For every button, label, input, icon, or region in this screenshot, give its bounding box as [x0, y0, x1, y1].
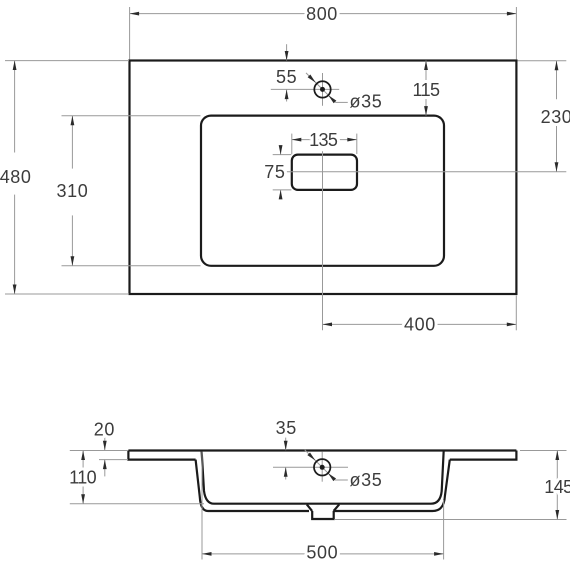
svg-text:115: 115: [413, 80, 440, 100]
svg-text:20: 20: [94, 420, 115, 440]
svg-text:ø35: ø35: [349, 92, 382, 112]
svg-text:500: 500: [306, 543, 338, 563]
svg-text:230: 230: [541, 107, 570, 127]
svg-text:75: 75: [264, 162, 285, 182]
svg-text:800: 800: [306, 4, 338, 24]
svg-text:145: 145: [544, 477, 570, 497]
svg-text:310: 310: [56, 181, 88, 201]
svg-text:400: 400: [404, 315, 436, 335]
svg-text:480: 480: [0, 167, 32, 187]
svg-text:35: 35: [276, 418, 297, 438]
svg-text:55: 55: [276, 67, 297, 87]
svg-text:135: 135: [309, 130, 338, 150]
svg-text:ø35: ø35: [349, 470, 382, 490]
svg-text:110: 110: [69, 468, 96, 488]
